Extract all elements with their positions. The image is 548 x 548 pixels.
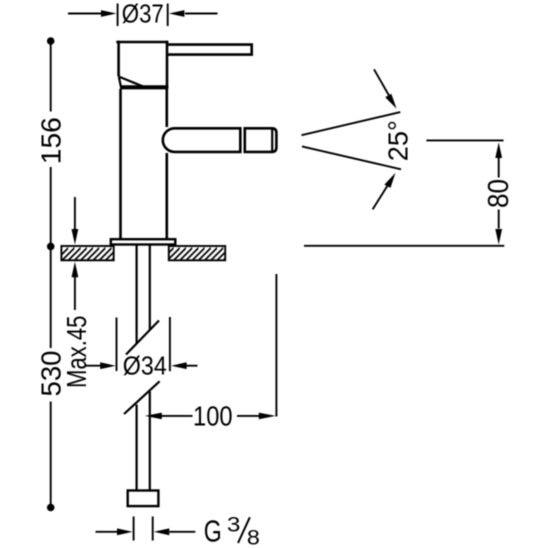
svg-text:8: 8 xyxy=(247,527,260,548)
svg-text:3: 3 xyxy=(227,513,241,536)
svg-text:100: 100 xyxy=(193,401,233,432)
svg-text:G: G xyxy=(204,514,222,548)
svg-text:Ø34: Ø34 xyxy=(123,351,167,381)
svg-text:156: 156 xyxy=(35,117,67,164)
svg-text:80: 80 xyxy=(483,179,515,208)
svg-text:Ø37: Ø37 xyxy=(122,1,164,29)
svg-text:25°: 25° xyxy=(383,120,414,161)
svg-text:Max.45: Max.45 xyxy=(61,316,92,389)
